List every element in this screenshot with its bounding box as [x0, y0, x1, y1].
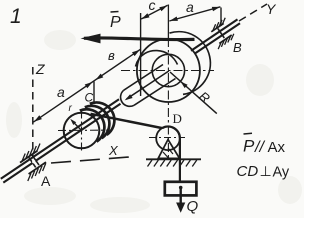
axis Z (dashed): [32, 67, 34, 158]
svg-text:X: X: [108, 143, 119, 158]
big pulley inner circle: [152, 54, 184, 86]
radius line R: [170, 72, 217, 114]
axis X (dashed): [51, 157, 136, 164]
bearing support B: [211, 23, 223, 31]
svg-text:P: P: [243, 137, 255, 156]
vertical extension + centerline through pulley and D: [167, 5, 169, 39]
svg-text:a: a: [186, 0, 194, 15]
rope D to weight (vertical): [179, 138, 181, 183]
svg-text:⊥: ⊥: [260, 163, 272, 179]
svg-text:CD: CD: [237, 163, 259, 180]
svg-text:Ay: Ay: [273, 165, 290, 181]
svg-text:a: a: [57, 84, 65, 100]
hub capsule lower edge: [134, 79, 176, 106]
dimension line a (top): [169, 7, 220, 21]
svg-text:C: C: [85, 91, 94, 105]
axis Y (dashed continuation of shaft): [239, 4, 267, 21]
drum at C: rear ribs: [80, 109, 105, 141]
ground line under D: [146, 158, 201, 160]
pulley D horizontal centerline: [149, 137, 185, 139]
svg-text:Q: Q: [187, 198, 199, 215]
drum at C: front circle: [64, 113, 100, 149]
svg-text://: //: [254, 139, 265, 156]
svg-text:в: в: [108, 48, 115, 63]
pulley horizontal centerline: [121, 70, 214, 72]
svg-text:c: c: [149, 0, 156, 13]
rope with force P (thick, arrow left): [84, 38, 195, 40]
svg-text:P: P: [110, 14, 121, 31]
pulley D circle: [156, 127, 180, 151]
node C tick: [93, 82, 95, 105]
weight block Q: [165, 182, 197, 196]
bearing support A: [20, 151, 37, 163]
svg-text:Z: Z: [35, 61, 45, 77]
big pulley outer circle: [137, 39, 200, 102]
scan noise (decorative, unlabeled region tint): [6, 30, 302, 213]
drum radius arrow r: [72, 121, 81, 130]
hub capsule upper edge: [124, 65, 163, 91]
extension line at B (vertical): [220, 8, 222, 27]
shaft AB (double line): [1, 99, 119, 179]
big pulley rear rim arc: [170, 32, 211, 95]
leader ray from pulley center (arrow down-left): [127, 71, 169, 99]
ground hatching: [148, 160, 153, 167]
svg-text:1: 1: [10, 5, 22, 28]
hub dome arc: [136, 51, 178, 67]
force arrow Q: [179, 187, 181, 205]
drum centerlines (dash-dot): [58, 129, 110, 131]
support triangle under D: [158, 140, 179, 159]
rope from drum C to pulley D: [91, 114, 163, 128]
hub capsule cap: [121, 90, 134, 106]
dimension chain line a+b: [33, 49, 140, 122]
dimension line c: [141, 5, 167, 19]
extension line at c (vertical): [140, 13, 142, 96]
svg-text:A: A: [41, 173, 51, 189]
svg-text:D: D: [173, 111, 182, 126]
svg-text:Ax: Ax: [268, 139, 286, 156]
svg-text:B: B: [233, 40, 242, 55]
